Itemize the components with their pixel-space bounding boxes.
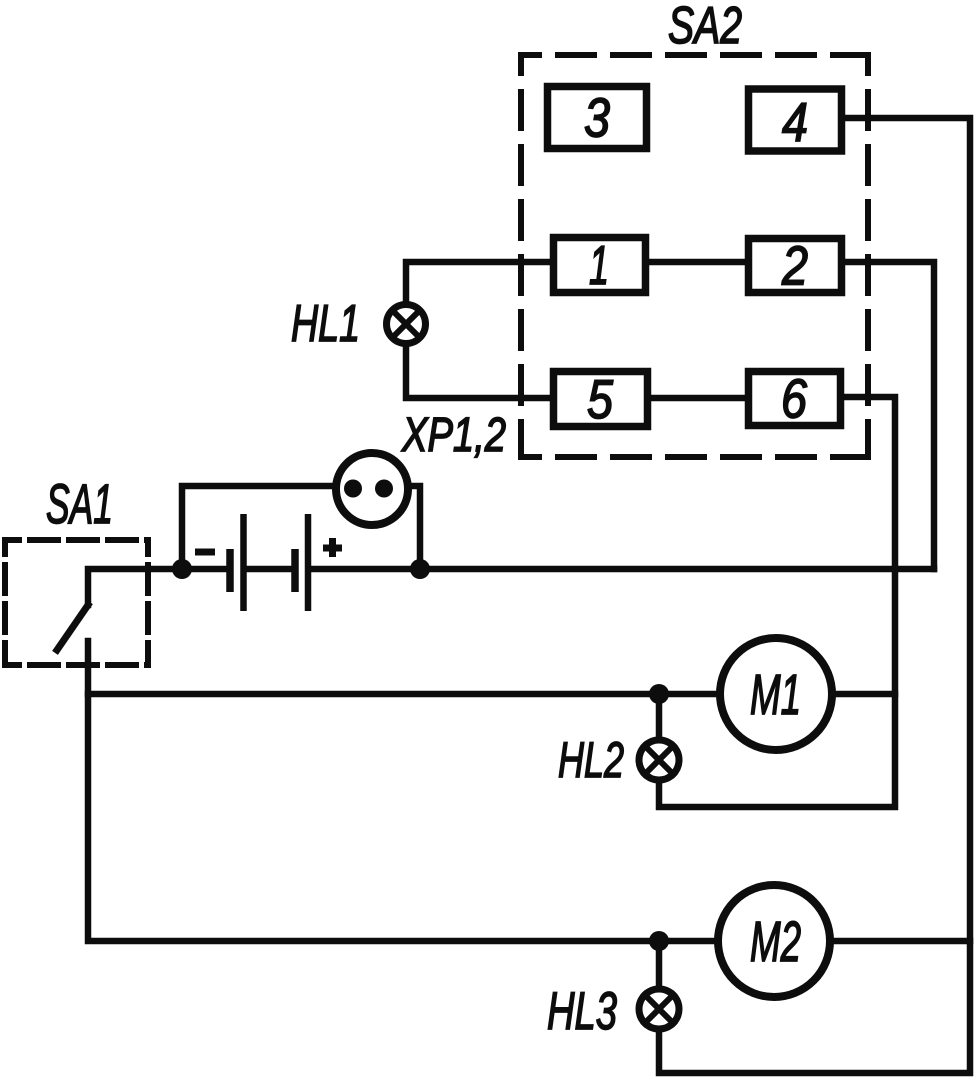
node junction dot M1 row [649, 684, 669, 704]
battery plus sign [323, 538, 342, 557]
contact box 5 [554, 372, 648, 427]
battery minus sign [195, 549, 215, 556]
svg-text:5: 5 [587, 368, 613, 430]
wire: contact 5 to contact 6 [647, 395, 749, 402]
connector XP1,2 [336, 453, 408, 525]
wire: battery left segment [182, 566, 225, 573]
svg-text:HL2: HL2 [558, 732, 624, 788]
svg-text:1: 1 [589, 234, 609, 296]
contact box 6 [749, 372, 841, 426]
wire: SA1 lower contact down left side to M2 row [88, 641, 718, 941]
switch block SA2 dashed box [521, 55, 868, 457]
wire: M1 right to vertical [832, 691, 895, 698]
battery cell link wire [246, 566, 292, 573]
svg-text:3: 3 [584, 87, 610, 149]
lamp HL1 [387, 305, 426, 344]
switch SA1 dashed box [5, 540, 148, 665]
svg-text:XP1,2: XP1,2 [401, 409, 506, 462]
svg-text:HL3: HL3 [547, 982, 617, 1041]
contact box 4 [749, 89, 842, 151]
motor M1 [720, 638, 832, 750]
lamp HL2 [639, 740, 679, 780]
wire: contact 2 right, down to battery row [841, 262, 934, 569]
node junction dot M2 row [649, 931, 669, 951]
wire: junction down to HL3 [656, 941, 663, 987]
svg-text:6: 6 [781, 368, 807, 430]
contact box 1 [554, 238, 646, 293]
wire: XP bypass loop right [397, 486, 420, 569]
contact box 2 [749, 239, 842, 293]
wire: contact 6 right, down to M1 loop bottom and HL2 [659, 397, 895, 807]
svg-text:SA2: SA2 [668, 0, 742, 55]
svg-text:M1: M1 [750, 663, 801, 726]
switch SA1 blade [57, 605, 88, 650]
lamp HL3 [639, 989, 679, 1029]
battery GB1 plates [230, 514, 308, 611]
contact box 3 [548, 87, 647, 149]
node junction dot left of battery [172, 559, 192, 579]
wire: M1 row from left vertical [88, 691, 720, 698]
wire: contact 1 to contact 2 [645, 259, 749, 266]
wire: battery row to SA1 [88, 569, 182, 605]
svg-text:4: 4 [782, 91, 808, 153]
svg-text:M2: M2 [750, 910, 801, 973]
node junction dot right of battery [410, 559, 430, 579]
svg-text:2: 2 [781, 235, 808, 297]
wire: HL1 loop top (to contact 1) [406, 262, 550, 305]
wire: M2 right to far right vertical [830, 938, 970, 945]
wire: battery right segment to right vertical [309, 566, 934, 573]
motor M2 [718, 885, 830, 997]
wire: HL1 loop bottom (to contact 5) [406, 344, 554, 398]
wire: contact 4 right, down right side to M2 loop bottom and HL3 [659, 118, 970, 1073]
svg-text:SA1: SA1 [46, 472, 113, 535]
wire: XP bypass loop left [182, 486, 340, 569]
svg-text:HL1: HL1 [291, 295, 360, 353]
wire: junction down to HL2 [656, 694, 663, 738]
